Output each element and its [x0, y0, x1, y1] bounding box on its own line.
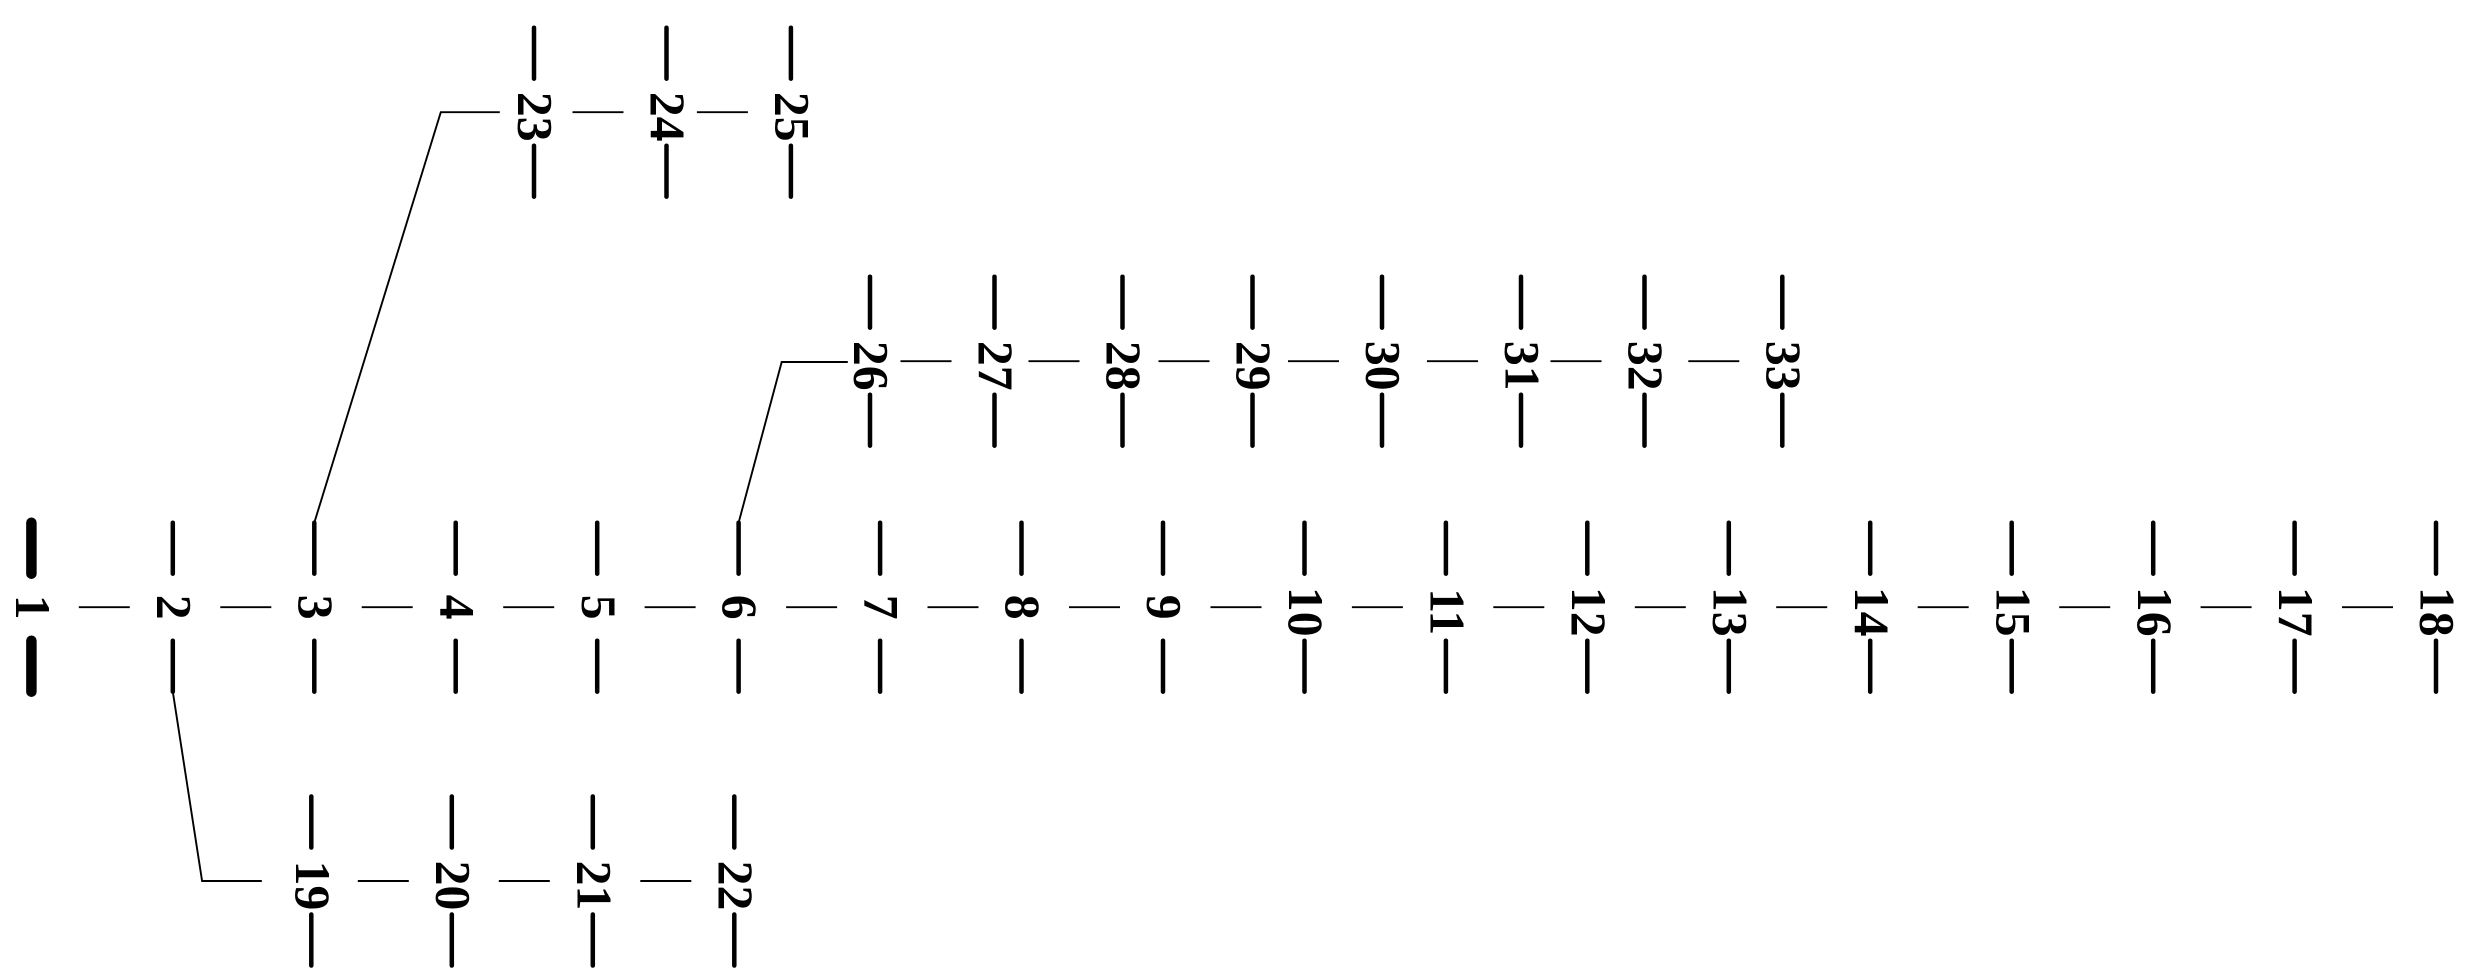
- wire branch 20-21: [499, 880, 550, 882]
- svg-text:28: 28: [1096, 341, 1151, 391]
- svg-text:22: 22: [708, 861, 763, 911]
- bus 2: [146, 523, 201, 692]
- svg-text:5: 5: [571, 595, 626, 620]
- wire branch 32-33: [1688, 360, 1739, 362]
- bus 33: [1756, 277, 1811, 446]
- wire branch 2-3: [220, 606, 271, 608]
- svg-text:15: 15: [1985, 587, 2040, 637]
- bus 22: [708, 797, 763, 966]
- wire branch 27-28: [1029, 360, 1080, 362]
- svg-text:19: 19: [285, 861, 340, 911]
- wire branch 3-23: [314, 112, 500, 523]
- wire branch 19-20: [358, 880, 409, 882]
- wire branch 24-25: [697, 111, 748, 113]
- svg-text:27: 27: [968, 341, 1023, 391]
- wire branch 26-27: [901, 360, 952, 362]
- svg-text:16: 16: [2127, 587, 2182, 637]
- bus 3: [288, 523, 343, 692]
- svg-text:10: 10: [1278, 587, 1333, 637]
- wire branch 16-17: [2201, 606, 2252, 608]
- wire branch 6-26: [739, 362, 848, 523]
- wire branch 23-24: [573, 111, 624, 113]
- wire branch 17-18: [2342, 606, 2393, 608]
- svg-text:1: 1: [5, 595, 60, 620]
- bus 26: [844, 277, 899, 446]
- svg-text:17: 17: [2268, 587, 2323, 637]
- bus 32: [1618, 277, 1673, 446]
- svg-text:32: 32: [1618, 341, 1673, 391]
- wire branch 10-11: [1352, 606, 1403, 608]
- bus 23: [508, 28, 563, 197]
- wire branch 31-32: [1551, 360, 1602, 362]
- svg-text:12: 12: [1561, 587, 1616, 637]
- svg-text:29: 29: [1226, 341, 1281, 391]
- svg-text:7: 7: [854, 595, 909, 620]
- bus 9: [1137, 523, 1192, 692]
- bus 1 (slack busbar): [5, 523, 60, 692]
- bus 15: [1985, 523, 2040, 692]
- wire branch 3-4: [362, 606, 413, 608]
- wire branch 4-5: [503, 606, 554, 608]
- svg-text:11: 11: [1420, 588, 1475, 635]
- bus 14: [1844, 523, 1899, 692]
- wire branch 1-2: [79, 606, 130, 608]
- wire branch 11-12: [1493, 606, 1544, 608]
- bus 19: [285, 797, 340, 966]
- svg-text:25: 25: [765, 92, 820, 142]
- wire branch 28-29: [1159, 360, 1210, 362]
- bus 27: [968, 277, 1023, 446]
- wire branch 5-6: [645, 606, 696, 608]
- wire branch 12-13: [1635, 606, 1686, 608]
- svg-text:6: 6: [712, 595, 767, 620]
- bus 4: [429, 523, 484, 692]
- wire branch 13-14: [1776, 606, 1827, 608]
- svg-text:13: 13: [1702, 587, 1757, 637]
- svg-text:3: 3: [288, 595, 343, 620]
- svg-text:4: 4: [429, 595, 484, 620]
- bus 13: [1702, 523, 1757, 692]
- bus 28: [1096, 277, 1151, 446]
- svg-text:8: 8: [995, 595, 1050, 620]
- wire branch 9-10: [1211, 606, 1262, 608]
- wire branch 6-7: [786, 606, 837, 608]
- bus 7: [854, 523, 909, 692]
- bus 21: [566, 797, 621, 966]
- svg-text:2: 2: [146, 595, 201, 620]
- bus 31: [1495, 277, 1550, 446]
- svg-text:33: 33: [1756, 341, 1811, 391]
- wire branch 2-19: [173, 692, 262, 881]
- bus 5: [571, 523, 626, 692]
- svg-text:31: 31: [1495, 341, 1550, 391]
- wire branch 30-31: [1427, 360, 1478, 362]
- wire branch 14-15: [1918, 606, 1969, 608]
- svg-text:26: 26: [844, 341, 899, 391]
- bus 30: [1356, 277, 1411, 446]
- wire branch 7-8: [928, 606, 979, 608]
- svg-text:23: 23: [508, 92, 563, 142]
- bus 24: [640, 28, 695, 197]
- bus 29: [1226, 277, 1281, 446]
- wire branch 15-16: [2059, 606, 2110, 608]
- svg-text:18: 18: [2410, 587, 2465, 637]
- bus 12: [1561, 523, 1616, 692]
- wire branch 29-30: [1288, 360, 1339, 362]
- bus 6: [712, 523, 767, 692]
- bus 10: [1278, 523, 1333, 692]
- wire branch 21-22: [640, 880, 691, 882]
- bus 11: [1420, 523, 1475, 692]
- bus 16: [2127, 523, 2182, 692]
- svg-text:21: 21: [566, 861, 621, 911]
- svg-text:9: 9: [1137, 595, 1192, 620]
- svg-text:14: 14: [1844, 587, 1899, 637]
- bus 18: [2410, 523, 2465, 692]
- bus 17: [2268, 523, 2323, 692]
- wire branch 8-9: [1069, 606, 1120, 608]
- bus 8: [995, 523, 1050, 692]
- svg-text:30: 30: [1356, 341, 1411, 391]
- svg-text:20: 20: [425, 861, 480, 911]
- bus 20: [425, 797, 480, 966]
- bus 25: [765, 28, 820, 197]
- svg-text:24: 24: [640, 92, 695, 142]
